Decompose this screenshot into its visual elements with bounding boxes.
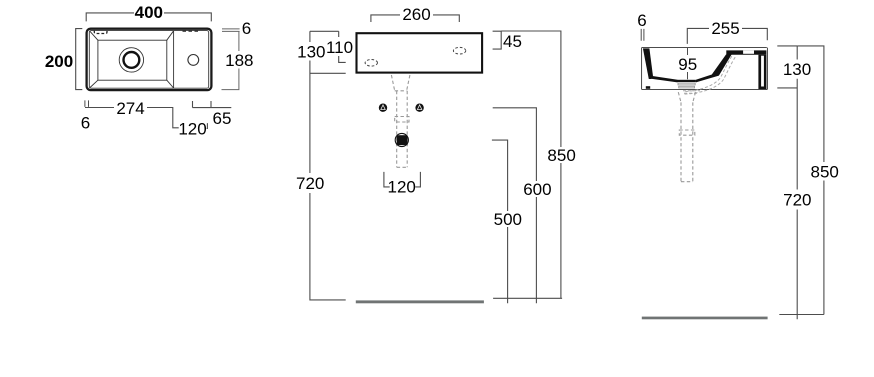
svg-text:200: 200 [45, 52, 73, 71]
fixing bolt symbol left [379, 104, 387, 112]
dim 400 line [86, 13, 211, 22]
dim 6 bottom ticks [85, 100, 89, 107]
drain flange black bar [677, 80, 696, 82]
drain inner circle [123, 52, 139, 68]
svg-text:400: 400 [135, 3, 163, 22]
basin rim inner line [89, 31, 208, 89]
basin outer rect [87, 29, 212, 90]
drain pipe dashed trapezoid (front) [391, 75, 410, 91]
deck section bar [726, 50, 766, 54]
svg-text:45: 45 [503, 32, 522, 51]
overflow slot dashed (plan top-left) [94, 30, 107, 33]
hidden overflow channel dashed [684, 57, 736, 94]
floor line (middle) [356, 300, 484, 303]
svg-text:120: 120 [388, 178, 416, 197]
drain pipe dashed verticals (front) [397, 91, 408, 168]
svg-text:95: 95 [678, 55, 697, 74]
dim 255 line [687, 28, 767, 44]
back wall section [758, 55, 766, 89]
svg-text:600: 600 [523, 180, 551, 199]
back wall white slot [761, 56, 764, 87]
basin front rect [357, 33, 483, 72]
bowl bottom slope right and back wall rise [696, 55, 732, 83]
dim 95 line [687, 48, 689, 79]
fixing bolt symbol right [415, 104, 423, 112]
dim 130/720 left line [310, 31, 346, 300]
dim 6 side ticks [641, 29, 644, 41]
dim 274 line [85, 108, 179, 128]
drain outlet symbol [395, 133, 408, 146]
dim 110 line [339, 31, 346, 62]
pipe coupling dashed (side) [679, 130, 695, 135]
hidden flange dashes [683, 91, 700, 93]
fixing hole dashed ellipse right [453, 47, 465, 54]
deck hidden dashes (plan top-right) [183, 30, 199, 32]
dim 120 plan tick [206, 123, 209, 128]
svg-text:6: 6 [81, 113, 90, 132]
svg-text:720: 720 [296, 174, 324, 193]
svg-text:255: 255 [711, 19, 739, 38]
dim 850 right line [779, 46, 824, 315]
drain flange gray bar 1 [678, 83, 695, 85]
dim 600 line [493, 108, 537, 303]
overflow notch (white) [743, 50, 754, 53]
dim 65 line [193, 101, 232, 108]
svg-text:720: 720 [783, 191, 811, 210]
dim 850 middle line [493, 31, 562, 298]
dim 120 front bracket [384, 172, 421, 187]
drain flange gray bar 2 [679, 86, 695, 88]
dim 45 bracket [493, 31, 502, 49]
svg-text:130: 130 [297, 43, 325, 62]
bowl bevel diagonal BR [167, 80, 174, 88]
dim 500 line [492, 140, 508, 303]
svg-text:850: 850 [811, 162, 839, 181]
svg-text:110: 110 [326, 38, 353, 57]
side outline [642, 48, 768, 90]
dim 200 line [76, 29, 83, 90]
bowl bottom rect [98, 40, 167, 80]
bowl bevel diagonal TR [167, 31, 174, 40]
svg-text:188: 188 [225, 51, 253, 70]
dim 130/720 right line [777, 46, 797, 319]
faucet hole circle [188, 55, 199, 66]
bowl bevel diagonal TL [90, 31, 98, 40]
dim 260 line [371, 15, 459, 22]
svg-text:500: 500 [494, 210, 522, 229]
dim 6 right extension lines [222, 29, 240, 32]
svg-text:6: 6 [637, 11, 646, 30]
svg-text:120: 120 [178, 120, 206, 139]
bowl bottom slope left [650, 76, 677, 83]
foot block [646, 86, 650, 89]
drain outer circle [119, 48, 143, 72]
svg-text:130: 130 [783, 60, 811, 79]
bowl right edge line [173, 31, 175, 89]
pipe coupling dashed (front) [395, 117, 409, 123]
dim 188 bracket [222, 31, 239, 89]
svg-text:850: 850 [547, 146, 575, 165]
svg-text:274: 274 [116, 99, 144, 118]
svg-text:65: 65 [213, 109, 232, 128]
drain pipe dashed (side) [678, 92, 695, 182]
floor line (right) [642, 317, 768, 320]
front wall section (black wedge) [643, 48, 653, 79]
svg-text:260: 260 [402, 5, 430, 24]
svg-text:6: 6 [242, 19, 251, 38]
bowl bevel diagonal BL [90, 80, 98, 88]
fixing hole dashed ellipse left [365, 60, 377, 67]
